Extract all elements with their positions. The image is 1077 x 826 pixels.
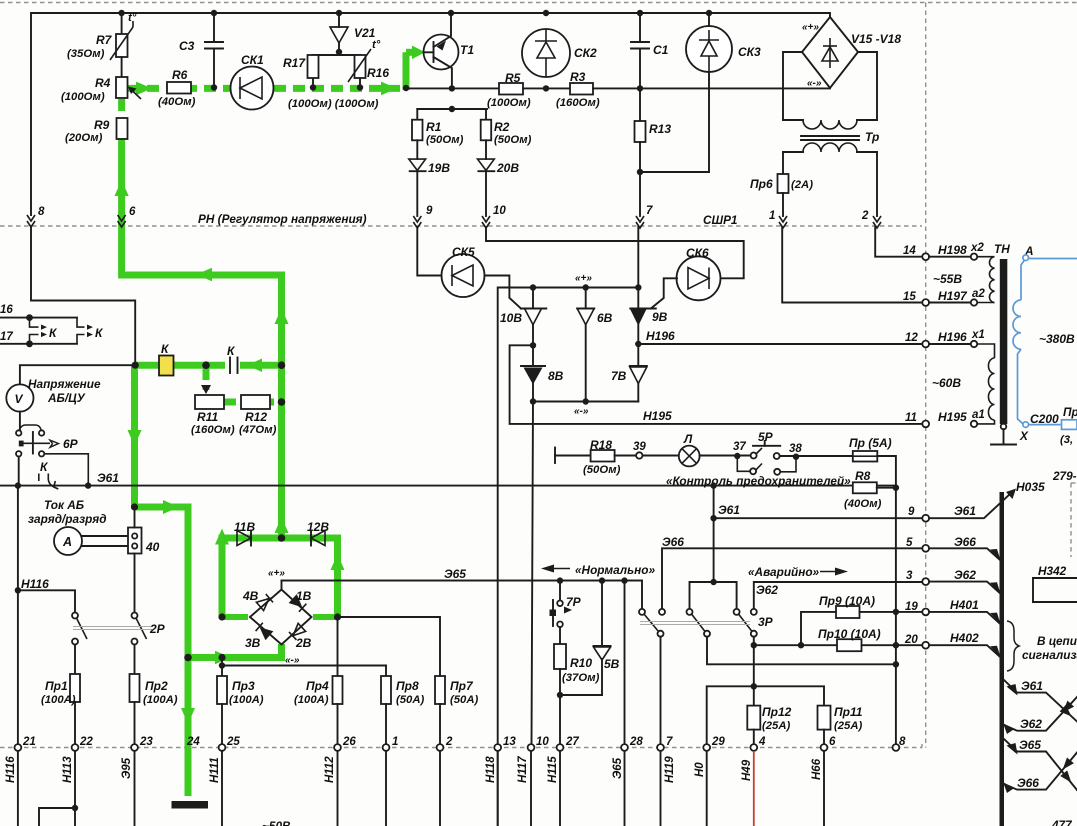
svg-text:6: 6 — [129, 206, 136, 218]
svg-text:(100А): (100А) — [294, 694, 329, 706]
svg-text:1: 1 — [392, 736, 398, 748]
svg-text:20В: 20В — [496, 161, 519, 175]
svg-text:Т1: Т1 — [460, 43, 474, 57]
svg-text:Пр (5А): Пр (5А) — [849, 436, 892, 450]
svg-text:2Р: 2Р — [149, 622, 166, 636]
svg-text:АБ/ЦУ: АБ/ЦУ — [47, 391, 86, 405]
svg-text:8: 8 — [899, 736, 906, 748]
svg-text:«+»: «+» — [802, 22, 819, 33]
svg-text:Н402: Н402 — [950, 631, 979, 645]
svg-text:279-: 279- — [1052, 469, 1077, 483]
svg-text:R11: R11 — [197, 410, 218, 424]
svg-text:(100А): (100А) — [143, 694, 178, 706]
svg-text:Э61: Э61 — [954, 504, 976, 518]
svg-text:3В: 3В — [245, 636, 261, 650]
svg-text:R8: R8 — [855, 469, 871, 483]
svg-text:СК2: СК2 — [574, 46, 597, 60]
svg-text:~55В: ~55В — [933, 272, 962, 286]
svg-text:(50Ом): (50Ом) — [583, 464, 621, 476]
svg-text:«Контроль предохранителей»: «Контроль предохранителей» — [666, 474, 851, 488]
svg-text:R3: R3 — [570, 70, 586, 84]
svg-text:Пр: Пр — [1063, 405, 1077, 419]
svg-text:~60В: ~60В — [932, 376, 961, 390]
svg-text:Н119: Н119 — [664, 756, 676, 783]
svg-text:(50Ом): (50Ом) — [494, 134, 532, 146]
svg-text:Н115: Н115 — [547, 756, 559, 783]
svg-text:10: 10 — [536, 736, 549, 748]
svg-text:СК6: СК6 — [686, 246, 709, 260]
svg-text:Пр11: Пр11 — [834, 705, 863, 719]
svg-text:Н66: Н66 — [811, 758, 823, 780]
svg-text:СК1: СК1 — [241, 53, 264, 67]
svg-text:V21: V21 — [354, 26, 376, 40]
svg-text:11: 11 — [905, 412, 917, 424]
svg-text:Э62: Э62 — [1020, 717, 1042, 731]
svg-text:R5: R5 — [505, 71, 521, 85]
svg-text:16: 16 — [0, 304, 13, 316]
svg-text:2: 2 — [861, 210, 869, 222]
svg-text:R12: R12 — [245, 410, 267, 424]
svg-text:39: 39 — [633, 441, 646, 453]
svg-text:Пр9 (10А): Пр9 (10А) — [819, 594, 875, 608]
svg-text:(50Ом): (50Ом) — [426, 134, 464, 146]
svg-text:5В: 5В — [604, 657, 620, 671]
svg-text:Э65: Э65 — [612, 757, 624, 779]
svg-text:(40Ом): (40Ом) — [844, 498, 882, 510]
svg-text:7: 7 — [666, 736, 673, 748]
svg-text:РН (Регулятор напряжения): РН (Регулятор напряжения) — [198, 212, 367, 226]
svg-text:x2: x2 — [970, 242, 984, 254]
svg-text:Н342: Н342 — [1038, 564, 1067, 578]
svg-text:3Р: 3Р — [758, 615, 774, 629]
svg-text:38: 38 — [789, 443, 802, 455]
svg-text:Н035: Н035 — [1016, 480, 1045, 494]
svg-text:Э65: Э65 — [444, 567, 466, 581]
svg-text:(160Ом): (160Ом) — [191, 424, 235, 436]
svg-text:Э61: Э61 — [1021, 679, 1043, 693]
svg-text:(3,: (3, — [1060, 434, 1073, 446]
svg-text:Н198: Н198 — [938, 243, 967, 257]
svg-text:Э61: Э61 — [97, 471, 119, 485]
svg-text:12: 12 — [905, 332, 918, 344]
svg-text:8: 8 — [38, 206, 45, 218]
svg-text:Н113: Н113 — [62, 756, 74, 783]
svg-text:«-»: «-» — [574, 406, 589, 417]
svg-text:(100А): (100А) — [41, 694, 76, 706]
svg-text:R10: R10 — [570, 656, 592, 670]
svg-text:13: 13 — [503, 736, 516, 748]
svg-text:Н111: Н111 — [209, 757, 221, 783]
svg-text:R1: R1 — [426, 120, 442, 134]
svg-text:R17: R17 — [283, 56, 306, 70]
svg-text:3: 3 — [906, 570, 913, 582]
svg-text:1В: 1В — [296, 589, 312, 603]
svg-text:Пр7: Пр7 — [450, 679, 474, 693]
svg-text:(37Ом): (37Ом) — [562, 672, 600, 684]
svg-text:Н116: Н116 — [5, 756, 17, 783]
svg-text:(160Ом): (160Ом) — [556, 97, 600, 109]
svg-text:8В: 8В — [548, 369, 564, 383]
svg-text:6В: 6В — [597, 311, 613, 325]
svg-text:6: 6 — [829, 736, 836, 748]
svg-text:1: 1 — [769, 210, 775, 222]
svg-text:6Р: 6Р — [63, 437, 79, 451]
svg-text:40: 40 — [145, 540, 160, 554]
svg-text:15: 15 — [903, 291, 916, 303]
svg-text:~380В: ~380В — [1039, 332, 1075, 346]
svg-text:9: 9 — [426, 205, 433, 217]
svg-text:9: 9 — [908, 506, 915, 518]
svg-text:С1: С1 — [653, 43, 669, 57]
svg-text:Напряжение: Напряжение — [28, 377, 101, 391]
svg-text:(40Ом): (40Ом) — [158, 96, 196, 108]
svg-text:20: 20 — [904, 634, 918, 646]
svg-text:заряд/разряд: заряд/разряд — [28, 512, 107, 526]
svg-text:2: 2 — [445, 736, 453, 748]
svg-text:СК5: СК5 — [452, 245, 475, 259]
svg-text:22: 22 — [79, 736, 93, 748]
svg-text:(50А): (50А) — [450, 694, 478, 706]
svg-text:(47Ом): (47Ом) — [239, 424, 277, 436]
svg-text:«-»: «-» — [807, 78, 822, 89]
svg-text:(100Ом): (100Ом) — [61, 91, 105, 103]
svg-text:Н116: Н116 — [21, 577, 49, 591]
svg-text:«+»: «+» — [575, 273, 592, 284]
svg-text:СШР1: СШР1 — [703, 213, 738, 227]
svg-text:(25А): (25А) — [762, 720, 790, 732]
svg-text:(100А): (100А) — [229, 694, 264, 706]
svg-text:Пр2: Пр2 — [145, 679, 168, 693]
svg-text:4: 4 — [758, 736, 766, 748]
svg-text:Н0: Н0 — [694, 762, 706, 777]
svg-text:«Аварийно»: «Аварийно» — [748, 565, 820, 579]
svg-text:2В: 2В — [295, 636, 312, 650]
svg-text:10: 10 — [493, 205, 506, 217]
svg-text:477: 477 — [1051, 818, 1073, 826]
svg-text:Э65: Э65 — [1019, 738, 1041, 752]
svg-text:28: 28 — [629, 736, 643, 748]
svg-text:Н196: Н196 — [938, 330, 967, 344]
svg-text:25: 25 — [226, 736, 240, 748]
svg-text:(25А): (25А) — [834, 720, 862, 732]
svg-text:19В: 19В — [428, 161, 450, 175]
svg-text:сигнализа: сигнализа — [1022, 648, 1077, 662]
svg-text:7В: 7В — [611, 369, 627, 383]
svg-text:t°: t° — [372, 39, 381, 51]
svg-text:R7: R7 — [96, 33, 113, 47]
svg-text:Н49: Н49 — [741, 759, 753, 781]
svg-text:Пр3: Пр3 — [232, 679, 255, 693]
svg-text:R18: R18 — [590, 438, 612, 452]
svg-text:Пр12: Пр12 — [762, 705, 792, 719]
svg-text:R2: R2 — [494, 120, 510, 134]
svg-text:7Р: 7Р — [566, 595, 582, 609]
svg-text:Тр: Тр — [865, 130, 879, 144]
svg-text:С3: С3 — [179, 39, 195, 53]
svg-text:10В: 10В — [500, 311, 522, 325]
svg-text:(100Ом): (100Ом) — [487, 97, 531, 109]
svg-text:(50А): (50А) — [396, 694, 424, 706]
svg-text:Э61: Э61 — [718, 503, 740, 517]
svg-text:27: 27 — [565, 736, 579, 748]
svg-text:5Р: 5Р — [758, 430, 774, 444]
svg-text:17: 17 — [0, 331, 13, 343]
svg-text:В цепи: В цепи — [1037, 634, 1077, 648]
svg-text:21: 21 — [22, 736, 36, 748]
svg-text:Э66: Э66 — [1017, 776, 1039, 790]
svg-text:А: А — [62, 535, 72, 549]
svg-text:9В: 9В — [652, 310, 668, 324]
svg-text:Н195: Н195 — [938, 410, 967, 424]
svg-text:4В: 4В — [242, 589, 259, 603]
svg-text:«-»: «-» — [285, 655, 300, 666]
svg-text:Ток АБ: Ток АБ — [44, 498, 84, 512]
svg-text:Н117: Н117 — [517, 756, 529, 783]
svg-text:23: 23 — [139, 736, 153, 748]
svg-text:СК3: СК3 — [738, 45, 761, 59]
svg-text:(35Ом): (35Ом) — [67, 48, 105, 60]
svg-text:С200: С200 — [1030, 412, 1059, 426]
svg-text:Э66: Э66 — [662, 535, 684, 549]
svg-text:Пр1: Пр1 — [45, 679, 68, 693]
svg-text:5: 5 — [906, 537, 913, 549]
svg-text:Пр4: Пр4 — [306, 679, 329, 693]
svg-text:Н112: Н112 — [324, 756, 336, 783]
svg-text:x1: x1 — [971, 329, 985, 341]
svg-text:Э66: Э66 — [954, 535, 976, 549]
svg-text:V: V — [15, 392, 24, 406]
svg-text:R16: R16 — [367, 66, 389, 80]
svg-text:Э62: Э62 — [756, 583, 778, 597]
svg-text:14: 14 — [903, 245, 916, 257]
svg-text:Пр8: Пр8 — [396, 679, 419, 693]
svg-text:а1: а1 — [972, 409, 985, 421]
svg-text:Пр10 (10А): Пр10 (10А) — [818, 627, 881, 641]
svg-text:Пр6: Пр6 — [750, 177, 773, 191]
svg-text:37: 37 — [733, 441, 746, 453]
svg-text:29: 29 — [711, 736, 725, 748]
svg-text:24: 24 — [186, 736, 200, 748]
svg-text:(100Ом) (100Ом): (100Ом) (100Ом) — [288, 98, 379, 110]
svg-text:V15 -V18: V15 -V18 — [851, 32, 901, 46]
svg-text:~50В: ~50В — [262, 819, 291, 826]
svg-text:«+»: «+» — [268, 568, 285, 579]
svg-text:Н197: Н197 — [938, 289, 968, 303]
svg-text:Н401: Н401 — [950, 598, 979, 612]
svg-text:R6: R6 — [172, 68, 188, 82]
svg-text:(20Ом): (20Ом) — [65, 132, 103, 144]
svg-text:ТН: ТН — [994, 242, 1010, 256]
svg-text:26: 26 — [342, 736, 356, 748]
svg-text:Н195: Н195 — [643, 409, 672, 423]
svg-text:(2А): (2А) — [791, 179, 813, 191]
svg-text:R13: R13 — [649, 122, 671, 136]
svg-text:t°: t° — [128, 12, 137, 24]
svg-text:X: X — [1019, 429, 1029, 443]
svg-text:Н196: Н196 — [646, 329, 675, 343]
svg-text:Э95: Э95 — [121, 757, 133, 779]
svg-text:Э62: Э62 — [954, 568, 976, 582]
svg-text:Н118: Н118 — [485, 756, 497, 783]
svg-text:Л: Л — [683, 432, 693, 446]
svg-text:R4: R4 — [95, 76, 111, 90]
svg-text:а2: а2 — [972, 288, 985, 300]
svg-text:7: 7 — [646, 205, 653, 217]
svg-text:«Нормально»: «Нормально» — [575, 563, 655, 577]
svg-text:19: 19 — [905, 601, 918, 613]
svg-text:R9: R9 — [94, 118, 110, 132]
